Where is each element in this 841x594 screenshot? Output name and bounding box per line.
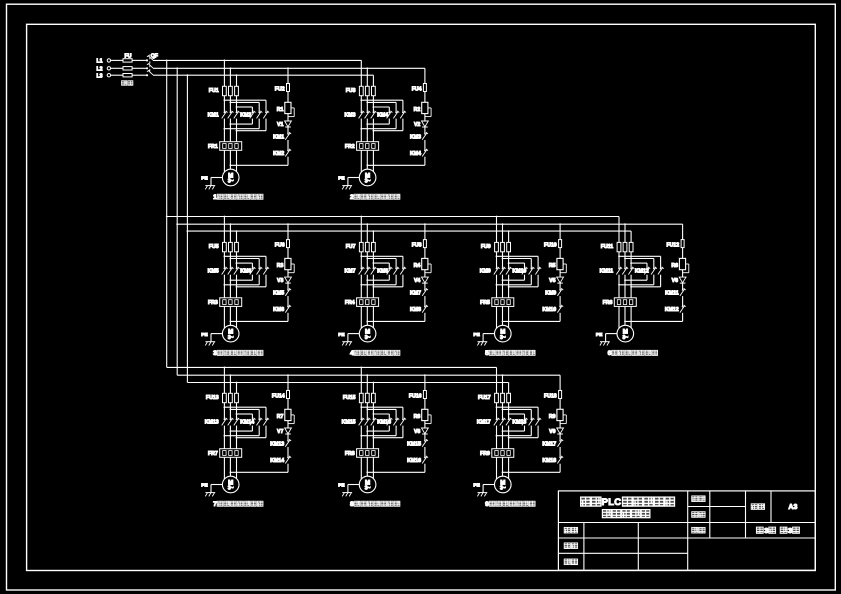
svg-text:FR3: FR3 <box>208 300 218 306</box>
wire resistor-to-diode unit 4 <box>424 270 426 277</box>
auxiliary contact KM10 <box>559 306 561 308</box>
auxiliary contact KM3 <box>424 133 426 135</box>
contactor KM11 main contacts <box>618 268 620 270</box>
wire relay-to-motor unit 9 <box>496 457 498 479</box>
svg-text:KM13: KM13 <box>270 441 284 447</box>
wire fuse to breaker L3 <box>132 74 146 76</box>
auxiliary contact KM16 <box>424 457 426 459</box>
wire fuse-to-contactor unit 7 <box>223 403 225 419</box>
contactor KM7 main contacts <box>360 268 362 270</box>
wire resistor tap unit 2 <box>428 107 431 109</box>
wire crossover return 1 unit 2 <box>388 119 390 125</box>
motor branch unit 8 <box>360 367 362 369</box>
wire resistor-to-diode unit 9 <box>559 421 561 428</box>
svg-text:2: 2 <box>350 194 354 201</box>
title block frame <box>558 491 815 570</box>
motor branch unit 1 <box>224 60 226 62</box>
auxiliary contact KM8 <box>424 306 426 308</box>
wire brake branch drop unit 9 <box>559 375 561 390</box>
svg-text:FR4: FR4 <box>345 300 355 306</box>
resistor R8 <box>422 409 428 420</box>
auxiliary contact KM7 <box>424 289 426 291</box>
wire crossover return 3 unit 8 <box>402 426 404 438</box>
wire crossover feed 3 unit 5 <box>509 262 525 264</box>
wire motor-to-earth unit 1 <box>211 177 222 179</box>
wire fuse-to-contactor unit 9 <box>496 403 498 419</box>
wire crossover feed 2 unit 2 <box>367 101 396 103</box>
wire motor-to-earth unit 6 <box>606 333 617 335</box>
fuse FU12 <box>681 240 684 248</box>
wire contactor outputs unit 1 <box>223 119 225 142</box>
svg-text:KM4: KM4 <box>377 112 388 118</box>
resistor R5 <box>557 258 563 269</box>
contactor KM4 main contacts <box>388 112 390 114</box>
svg-text:PE: PE <box>201 176 208 182</box>
wire phase L2 drop unit 4 <box>366 224 368 242</box>
svg-text:FU17: FU17 <box>478 395 491 401</box>
wire phase L1 drop unit 7 <box>223 367 225 393</box>
thermal relay FR4 <box>357 298 379 307</box>
wire crossover feed 1 unit 1 <box>224 99 266 101</box>
wire brake branch return unit 2 <box>424 157 426 166</box>
svg-text:KM7: KM7 <box>410 291 421 297</box>
wire fuse-to-resistor unit 5 <box>559 248 561 259</box>
wire motor-to-earth unit 9 <box>483 484 494 486</box>
wire crossover feed 3 unit 3 <box>237 262 253 264</box>
wire phase L2 drop unit 7 <box>229 375 231 393</box>
contactor KM8 main contacts <box>388 268 390 270</box>
contactor KM18 main contacts <box>524 419 526 421</box>
wire phase L1 drop unit 5 <box>496 217 498 243</box>
auxiliary contact KM17 <box>559 440 561 442</box>
wire fuse-to-contactor unit 8 <box>360 403 362 419</box>
svg-text:FU7: FU7 <box>346 244 356 250</box>
svg-text:R7: R7 <box>277 414 284 420</box>
wire motor-to-earth unit 8 <box>348 484 359 486</box>
svg-text:FR2: FR2 <box>345 144 355 150</box>
svg-text:R9: R9 <box>549 414 556 420</box>
motor M3 <box>222 325 239 342</box>
svg-text:PE: PE <box>338 483 345 489</box>
wire relay-to-motor unit 8 <box>360 457 362 479</box>
contactor KM5 main contacts <box>224 268 226 270</box>
wire crossover return 2 unit 6 <box>653 275 655 285</box>
svg-text:KM6: KM6 <box>240 269 251 275</box>
wire relay-to-motor unit 4 <box>360 306 362 328</box>
wire crossover feed 1 unit 6 <box>619 255 661 257</box>
svg-text:KM4: KM4 <box>410 151 421 157</box>
wire crossover return 1 unit 8 <box>388 426 390 432</box>
wire contact-to-contact unit 6 <box>682 296 684 306</box>
fuse FU8 <box>423 240 426 248</box>
svg-text:KM3: KM3 <box>410 134 421 140</box>
feeder L2 vertical <box>176 68 178 375</box>
wire phase L1 drop unit 1 <box>223 60 225 86</box>
svg-text:7: 7 <box>213 501 217 508</box>
fuse FU2 <box>287 84 290 92</box>
svg-text:R4: R4 <box>414 263 421 269</box>
wire crossover feed 2 unit 3 <box>230 258 259 260</box>
sheet count label <box>756 527 763 533</box>
svg-text:KM2: KM2 <box>273 151 284 157</box>
fuse FU14 <box>287 391 290 399</box>
wire L1 to fuse <box>111 59 123 61</box>
wire phase L1 drop unit 6 <box>618 217 620 243</box>
thermal relay FR5 <box>492 298 514 307</box>
diode V6 <box>679 277 686 283</box>
wire fuse-to-contactor unit 2 <box>360 96 362 112</box>
wire resistor tap unit 9 <box>563 414 566 416</box>
wire crossover return 1 unit 1 <box>251 119 253 125</box>
svg-text:FR1: FR1 <box>208 144 218 150</box>
wire resistor-to-diode unit 3 <box>287 270 289 277</box>
motor branch unit 7 <box>224 367 226 369</box>
contactor KM16 main contacts <box>388 419 390 421</box>
svg-text:FU18: FU18 <box>544 394 557 400</box>
wire crossover return 2 unit 7 <box>258 426 260 436</box>
wire fuse-to-contactor unit 6 <box>618 252 620 268</box>
svg-text:V8: V8 <box>414 429 420 435</box>
wire contact-to-contact unit 3 <box>287 296 289 306</box>
svg-text:KM9: KM9 <box>545 291 556 297</box>
wire phase L1 drop unit 4 <box>360 217 362 243</box>
wire motor-to-earth unit 3 <box>211 333 222 335</box>
wire fuse-to-resistor unit 8 <box>424 399 426 410</box>
resistor R6 <box>679 258 685 269</box>
diode V2 <box>422 121 429 127</box>
wire brake branch return unit 8 <box>424 464 426 473</box>
svg-text:KM12: KM12 <box>665 307 679 313</box>
ground unit 9 <box>478 492 488 494</box>
wire phase L3 drop unit 1 <box>236 75 238 86</box>
ground unit 1 <box>205 185 215 187</box>
wire fuse-to-resistor unit 1 <box>287 92 289 103</box>
wire phase L3 drop unit 7 <box>236 383 238 394</box>
wire crossover return 1 unit 5 <box>524 275 526 281</box>
wire relay-to-motor unit 7 <box>223 457 225 479</box>
svg-text:V7: V7 <box>277 429 283 435</box>
wire brake branch drop unit 3 <box>287 224 289 239</box>
wire resistor tap unit 1 <box>291 107 294 109</box>
wire crossover feed 1 unit 2 <box>361 99 403 101</box>
motor M4 <box>359 325 376 342</box>
wire phase L1 drop unit 2 <box>360 60 362 86</box>
wire crossover return 2 unit 1 <box>258 119 260 129</box>
motor M7 <box>222 476 239 493</box>
wire crossover feed 2 unit 4 <box>367 258 396 260</box>
wire crossover return 3 unit 9 <box>537 426 539 438</box>
resistor R2 <box>422 102 428 113</box>
wire brake branch return unit 7 <box>287 464 289 473</box>
auxiliary contact KM18 <box>559 457 561 459</box>
wire brake branch return unit 5 <box>559 313 561 322</box>
wire brake branch return unit 9 <box>559 464 561 473</box>
quantity label <box>692 512 699 518</box>
fuse FU3 <box>359 86 363 95</box>
svg-text:R5: R5 <box>549 263 556 269</box>
wire contactor outputs unit 2 <box>360 119 362 142</box>
wire brake branch drop unit 5 <box>559 224 561 239</box>
contactor KM1 main contacts <box>224 112 226 114</box>
wire crossover feed 2 unit 6 <box>625 258 654 260</box>
wire resistor-to-diode unit 6 <box>682 270 684 277</box>
drafter label <box>564 527 571 533</box>
wire diode-to-contact unit 5 <box>559 283 561 289</box>
bus L2 row 3 <box>177 374 560 376</box>
fuse FU6 <box>287 240 290 248</box>
svg-text:KM9: KM9 <box>480 269 491 275</box>
wire brake branch drop unit 7 <box>287 375 289 390</box>
svg-text:V4: V4 <box>414 278 420 284</box>
wire phase L2 drop unit 1 <box>229 68 231 86</box>
wire resistor tap unit 5 <box>563 263 566 265</box>
wire crossover feed 1 unit 5 <box>497 255 539 257</box>
ground unit 6 <box>600 341 610 343</box>
fuse FU10 <box>559 240 562 248</box>
contactor KM12 main contacts <box>646 268 648 270</box>
wire phase L1 drop unit 9 <box>496 367 498 393</box>
wire resistor tap unit 6 <box>686 263 689 265</box>
svg-text:V2: V2 <box>414 122 420 128</box>
auxiliary contact KM1 <box>287 133 289 135</box>
diode V5 <box>557 277 564 283</box>
wire crossover return 3 unit 3 <box>265 275 267 287</box>
svg-text:V9: V9 <box>549 429 555 435</box>
svg-text:KM8: KM8 <box>410 307 421 313</box>
fuse FU15 <box>359 393 363 402</box>
wire phase L3 drop unit 5 <box>508 231 510 242</box>
contactor KM2 main contacts <box>252 112 254 114</box>
thermal relay FR9 <box>492 449 514 458</box>
motor M8 <box>359 476 376 493</box>
svg-text:FR5: FR5 <box>480 300 490 306</box>
diode V4 <box>422 277 429 283</box>
svg-text:R6: R6 <box>671 263 678 269</box>
motor M6 <box>617 325 634 342</box>
contactor KM13 main contacts <box>224 419 226 421</box>
svg-text:FU5: FU5 <box>209 244 219 250</box>
resistor R1 <box>285 102 291 113</box>
svg-text:KM8: KM8 <box>377 269 388 275</box>
tracer label <box>564 543 571 549</box>
wire fuse-to-contactor unit 5 <box>496 252 498 268</box>
svg-text:FU11: FU11 <box>601 244 614 250</box>
wire crossover feed 1 unit 3 <box>224 255 266 257</box>
title text <box>581 497 591 506</box>
wire phase L3 drop unit 9 <box>508 383 510 394</box>
wire brake branch return unit 1 <box>287 157 289 166</box>
svg-text:PLC: PLC <box>602 496 622 507</box>
weight label <box>692 527 699 533</box>
svg-text:FU6: FU6 <box>275 243 285 249</box>
wire relay-to-motor unit 2 <box>360 150 362 172</box>
wire diode-to-contact unit 2 <box>424 127 426 133</box>
wire crossover feed 3 unit 1 <box>237 106 253 108</box>
bus L3 row 2 <box>187 230 631 232</box>
svg-text:KM16: KM16 <box>407 458 421 464</box>
svg-text:4: 4 <box>350 350 354 357</box>
wire relay-to-motor unit 5 <box>496 306 498 328</box>
wire fuse-to-resistor unit 9 <box>559 399 561 410</box>
contactor KM6 main contacts <box>252 268 254 270</box>
svg-text:FU13: FU13 <box>206 395 219 401</box>
wire crossover return 3 unit 1 <box>265 119 267 131</box>
auxiliary contact KM4 <box>424 150 426 152</box>
fuse FU13 <box>223 393 227 402</box>
svg-text:PE: PE <box>201 483 208 489</box>
bus L1 row 3 <box>167 366 497 368</box>
wire phase L2 drop unit 3 <box>229 224 231 242</box>
wire crossover feed 2 unit 5 <box>503 258 532 260</box>
svg-text:FU3: FU3 <box>346 88 356 94</box>
thermal relay FR8 <box>357 449 379 458</box>
wire diode-to-contact unit 3 <box>287 283 289 289</box>
fuse FU7 <box>359 242 363 251</box>
svg-text:KM11: KM11 <box>600 269 614 275</box>
wire crossover feed 3 unit 4 <box>373 262 389 264</box>
wire brake branch drop unit 2 <box>424 68 426 83</box>
wire phase L3 drop unit 6 <box>630 231 632 242</box>
svg-text:KM17: KM17 <box>477 419 491 425</box>
wire brake branch drop unit 4 <box>424 224 426 239</box>
wire crossover return 1 unit 9 <box>524 426 526 432</box>
contactor KM10 main contacts <box>524 268 526 270</box>
contactor KM14 main contacts <box>252 419 254 421</box>
svg-text:FR7: FR7 <box>208 451 218 457</box>
svg-text:V6: V6 <box>672 278 678 284</box>
ground unit 3 <box>205 341 215 343</box>
wire motor-to-earth unit 5 <box>483 333 494 335</box>
wire crossover feed 1 unit 9 <box>497 406 539 408</box>
scale label <box>692 496 699 502</box>
wire phase L3 drop unit 3 <box>236 231 238 242</box>
wire resistor tap unit 8 <box>428 414 431 416</box>
fuse FU4 <box>423 84 426 92</box>
svg-text:KM5: KM5 <box>273 291 284 297</box>
wire contactor outputs unit 3 <box>223 275 225 298</box>
svg-text:PE: PE <box>473 483 480 489</box>
wire crossover feed 1 unit 4 <box>361 255 403 257</box>
bus L3 row 1 <box>153 74 374 76</box>
svg-text:KM15: KM15 <box>407 441 421 447</box>
wire phase L3 drop unit 4 <box>372 231 374 242</box>
wire resistor-to-diode unit 1 <box>287 114 289 121</box>
wire brake branch return unit 4 <box>424 313 426 322</box>
motor branch unit 9 <box>502 374 504 376</box>
wire fuse to breaker L1 <box>132 59 146 61</box>
drawing number label <box>751 504 758 510</box>
diode V8 <box>422 428 429 434</box>
auxiliary contact KM12 <box>682 306 684 308</box>
wire crossover feed 2 unit 1 <box>230 101 259 103</box>
auxiliary contact KM6 <box>287 306 289 308</box>
fuse FU11 <box>617 242 621 251</box>
wire contact-to-contact unit 2 <box>424 140 426 150</box>
wire crossover return 2 unit 9 <box>530 426 532 436</box>
wire contactor outputs unit 5 <box>496 275 498 298</box>
wire crossover return 2 unit 5 <box>530 275 532 285</box>
svg-text:3~: 3~ <box>622 335 628 341</box>
svg-text:3~: 3~ <box>500 486 506 492</box>
fuse FU1 <box>223 86 227 95</box>
svg-text:FR6: FR6 <box>603 300 613 306</box>
wire contact-to-contact unit 1 <box>287 140 289 150</box>
svg-text:PE: PE <box>338 332 345 338</box>
motor M2 <box>359 169 376 186</box>
feeder L1 vertical <box>166 60 168 367</box>
fuse FU18 <box>559 391 562 399</box>
svg-text:R1: R1 <box>277 107 284 113</box>
svg-text:KM15: KM15 <box>342 419 356 425</box>
wire phase L2 drop unit 9 <box>502 375 504 393</box>
bus L2 row 1 <box>153 67 425 69</box>
auxiliary contact KM15 <box>424 440 426 442</box>
wire crossover return 3 unit 7 <box>265 426 267 438</box>
wire crossover return 2 unit 8 <box>395 426 397 436</box>
svg-text:PE: PE <box>201 332 208 338</box>
svg-text:5: 5 <box>485 350 489 357</box>
svg-text:PE: PE <box>596 332 603 338</box>
wire crossover feed 1 unit 8 <box>361 406 403 408</box>
checker label <box>564 559 571 565</box>
bus L3 row 3 <box>187 382 508 384</box>
svg-text:KM13: KM13 <box>205 419 219 425</box>
wire contactor outputs unit 6 <box>618 275 620 298</box>
wire diode-to-contact unit 4 <box>424 283 426 289</box>
svg-text:FU2: FU2 <box>275 87 285 93</box>
wire crossover return 2 unit 2 <box>395 119 397 129</box>
svg-text:KM17: KM17 <box>542 441 556 447</box>
auxiliary contact KM9 <box>559 289 561 291</box>
svg-text:9: 9 <box>485 501 489 508</box>
motor branch unit 2 <box>366 67 368 69</box>
wire crossover return 3 unit 6 <box>660 275 662 287</box>
auxiliary contact KM13 <box>287 440 289 442</box>
contactor KM15 main contacts <box>360 419 362 421</box>
motor branch unit 5 <box>496 216 498 218</box>
diode V3 <box>285 277 292 283</box>
wire L3 to fuse <box>111 74 123 76</box>
bus L1 row 1 <box>153 59 362 61</box>
wire crossover feed 2 unit 8 <box>367 408 396 410</box>
wire brake branch drop unit 1 <box>287 68 289 83</box>
fuse FU16 <box>423 391 426 399</box>
svg-text:KM16: KM16 <box>377 419 391 425</box>
wire contactor outputs unit 7 <box>223 426 225 449</box>
power source label <box>121 81 127 86</box>
wire crossover feed 3 unit 8 <box>373 413 389 415</box>
wire fuse-to-resistor unit 2 <box>424 92 426 103</box>
wire crossover return 2 unit 3 <box>258 275 260 285</box>
wire resistor tap unit 7 <box>291 414 294 416</box>
wire contact-to-contact unit 9 <box>559 447 561 457</box>
contactor KM9 main contacts <box>496 268 498 270</box>
wire motor-to-earth unit 7 <box>211 484 222 486</box>
wire brake branch return unit 3 <box>287 313 289 322</box>
wire resistor-to-diode unit 7 <box>287 421 289 428</box>
wire diode-to-contact unit 8 <box>424 434 426 440</box>
svg-text:KM12: KM12 <box>635 269 649 275</box>
wire fuse-to-resistor unit 7 <box>287 399 289 410</box>
wire diode-to-contact unit 9 <box>559 434 561 440</box>
title block grid lines <box>558 491 815 570</box>
svg-text:FU9: FU9 <box>481 244 491 250</box>
svg-text:FU10: FU10 <box>544 243 557 249</box>
svg-text:FU14: FU14 <box>272 394 285 400</box>
resistor R7 <box>285 409 291 420</box>
thermal relay FR1 <box>220 142 242 151</box>
svg-text:R2: R2 <box>414 107 421 113</box>
